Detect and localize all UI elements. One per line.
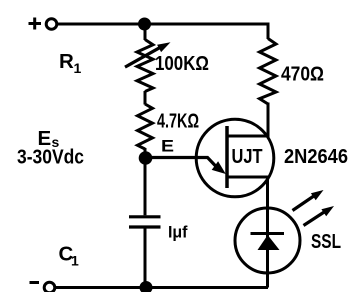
UJT base-2 lead bbox=[227, 135, 268, 138]
UJT base bar bbox=[225, 126, 229, 188]
wire base-1 down through SSL to bottom rail bbox=[266, 177, 269, 288]
svg-text:2N2646: 2N2646 bbox=[284, 145, 348, 168]
wire emitter lead bbox=[146, 158, 219, 169]
emitter arrowhead bbox=[212, 161, 226, 174]
resistor 4.7K zigzag bbox=[138, 104, 153, 149]
resistor 470 zigzag bbox=[260, 39, 277, 105]
capacitor C1 bottom plate bbox=[129, 225, 161, 228]
svg-text:Iμf: Iμf bbox=[168, 224, 188, 242]
wire capacitor to bottom rail bbox=[144, 229, 147, 288]
capacitor C1 top plate bbox=[129, 215, 161, 218]
node - (negative terminal minus sign) bbox=[30, 281, 40, 284]
wire bottom rail bbox=[55, 286, 268, 289]
LED SSL circle body bbox=[235, 208, 300, 273]
wire 4.7K to node E bbox=[144, 148, 147, 158]
resistor R1 potentiometer 100K zigzag bbox=[137, 40, 153, 92]
LED triangle bbox=[258, 235, 280, 250]
node + (positive terminal plus sign) bbox=[29, 18, 42, 30]
svg-text:R: R bbox=[59, 50, 74, 73]
op-amp U1 UJT circle body bbox=[196, 119, 274, 197]
wire top rail bbox=[58, 23, 268, 26]
node junction dot bottom bbox=[140, 281, 153, 292]
light arrow 2 bbox=[304, 206, 335, 226]
wire node E to capacitor bbox=[144, 158, 147, 215]
wire right branch top corner bbox=[267, 23, 270, 40]
wire left branch upper bbox=[144, 24, 147, 40]
negative terminal circle bbox=[44, 282, 55, 292]
svg-text:1: 1 bbox=[71, 253, 79, 269]
svg-text:3-30Vdc: 3-30Vdc bbox=[17, 146, 84, 169]
svg-text:470Ω: 470Ω bbox=[281, 63, 324, 86]
svg-text:100KΩ: 100KΩ bbox=[155, 52, 209, 75]
positive terminal circle bbox=[46, 19, 57, 30]
svg-text:E: E bbox=[161, 137, 174, 156]
light arrow 1 bbox=[293, 190, 324, 211]
svg-text:4.7KΩ: 4.7KΩ bbox=[157, 110, 199, 133]
potentiometer arrow bbox=[125, 42, 171, 67]
UJT base-1 lead bbox=[227, 176, 268, 179]
LED cathode bar bbox=[251, 232, 285, 235]
wire between resistors bbox=[144, 91, 147, 105]
svg-text:UJT: UJT bbox=[232, 145, 263, 168]
wire 470 to base-2 bbox=[267, 103, 270, 138]
node junction dot top bbox=[138, 18, 151, 31]
svg-text:1: 1 bbox=[74, 60, 82, 76]
node E junction dot bbox=[139, 151, 153, 165]
svg-text:SSL: SSL bbox=[311, 230, 341, 253]
